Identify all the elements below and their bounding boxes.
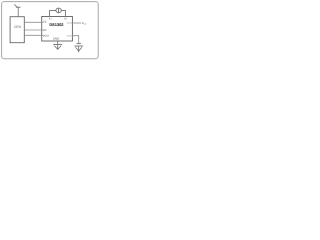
svg-text:CE: CE bbox=[43, 20, 47, 23]
svg-text:SCLK: SCLK bbox=[43, 34, 50, 37]
svg-text:I/O: I/O bbox=[43, 29, 46, 32]
svg-text:GND: GND bbox=[53, 38, 59, 41]
svg-text:DS1302: DS1302 bbox=[49, 22, 64, 27]
svg-text:CPU: CPU bbox=[14, 25, 22, 29]
